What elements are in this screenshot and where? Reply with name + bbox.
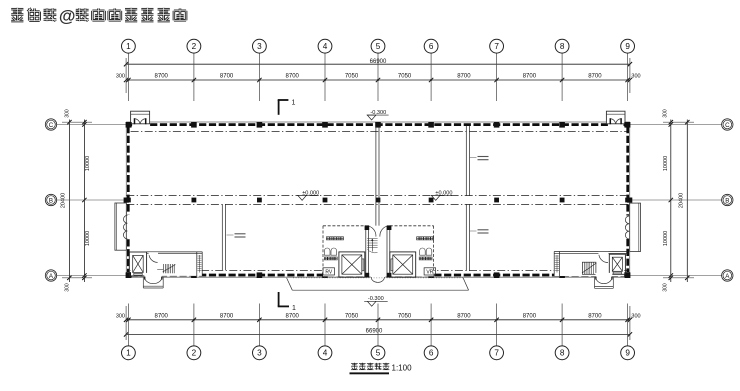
svg-text:7050: 7050 xyxy=(398,73,412,79)
lobby right room dashed outline xyxy=(390,225,434,227)
svg-text:300: 300 xyxy=(116,314,125,320)
svg-text:20400: 20400 xyxy=(61,193,67,208)
svg-text:1: 1 xyxy=(292,305,296,312)
service shaft left suite xyxy=(196,252,198,276)
section mark 1 bottom xyxy=(278,292,280,306)
svg-text:300: 300 xyxy=(631,73,640,79)
partition wall grid5 upper xyxy=(375,126,377,226)
roof shaft top-right with doors xyxy=(608,121,624,126)
columns on B axis xyxy=(126,198,131,203)
svg-text:8: 8 xyxy=(560,42,565,51)
svg-text:300: 300 xyxy=(64,283,70,292)
svg-text:2: 2 xyxy=(192,42,197,51)
svg-text:7050: 7050 xyxy=(398,314,412,320)
svg-text:5: 5 xyxy=(376,349,381,358)
svg-text:8700: 8700 xyxy=(523,73,537,79)
svg-text:4: 4 xyxy=(323,42,328,51)
dim lines left vertical xyxy=(68,120,70,283)
svg-text:RV: RV xyxy=(325,270,333,276)
door arc left suite xyxy=(149,254,158,263)
svg-text:8700: 8700 xyxy=(286,314,300,320)
svg-text:10000: 10000 xyxy=(85,231,91,246)
svg-text:9: 9 xyxy=(625,349,630,358)
elevator center-right xyxy=(390,252,416,277)
door arc right suite xyxy=(599,253,608,262)
svg-text:1: 1 xyxy=(126,349,131,358)
svg-text:10000: 10000 xyxy=(663,231,669,246)
svg-text:@: @ xyxy=(59,7,76,26)
svg-text:8700: 8700 xyxy=(457,314,471,320)
box VR right xyxy=(424,268,436,275)
dash-dot line inside bottom wall xyxy=(131,270,627,272)
text freight elevator area left xyxy=(326,237,329,240)
lobby left room dashed outline xyxy=(323,225,366,227)
svg-text:C: C xyxy=(725,122,730,129)
entrance porch right xyxy=(596,273,613,279)
svg-text:4: 4 xyxy=(323,349,328,358)
svg-text:10000: 10000 xyxy=(85,156,91,171)
svg-text:8700: 8700 xyxy=(220,314,234,320)
service shaft right suite xyxy=(553,252,555,277)
svg-text:20400: 20400 xyxy=(679,193,685,208)
lobby corner columns xyxy=(365,225,370,230)
duct arches left room xyxy=(324,248,330,255)
svg-text:C: C xyxy=(49,122,54,129)
svg-text:VR: VR xyxy=(426,270,433,276)
svg-text:300: 300 xyxy=(64,109,70,118)
wall left exterior xyxy=(125,122,127,277)
tiny text right room xyxy=(419,257,422,260)
svg-text:7050: 7050 xyxy=(345,73,359,79)
grid bubbles top 1-9 xyxy=(121,39,135,53)
dash-dot line inside top wall xyxy=(131,130,627,132)
grid bubbles right C B A xyxy=(722,119,733,130)
svg-text:8: 8 xyxy=(560,349,565,358)
elevator center-left xyxy=(339,252,365,277)
axis extension lines left xyxy=(57,124,126,126)
svg-text:1:100: 1:100 xyxy=(392,363,413,372)
partition wall x468 lower xyxy=(465,204,467,270)
label on x468 wall lower xyxy=(470,230,477,232)
partition wall x223 lower xyxy=(221,204,223,270)
title first floor plan 1:100 xyxy=(351,362,358,364)
elevator far-left xyxy=(129,252,146,276)
stairs right suite xyxy=(582,262,596,274)
right suite top wall xyxy=(554,251,628,253)
svg-text:8700: 8700 xyxy=(523,314,537,320)
svg-text:7050: 7050 xyxy=(345,314,359,320)
entrance porch left xyxy=(144,273,162,279)
right suite white underlay xyxy=(554,252,624,277)
dim line top segments xyxy=(126,79,630,81)
watermark text sohu xyxy=(11,7,186,26)
tiny text left room xyxy=(324,257,327,260)
svg-text:8700: 8700 xyxy=(457,73,471,79)
svg-text:10000: 10000 xyxy=(663,156,669,171)
columns on C axis xyxy=(126,122,132,128)
left suite white underlay xyxy=(131,252,202,276)
svg-text:8700: 8700 xyxy=(588,314,602,320)
svg-text:3: 3 xyxy=(257,42,262,51)
entrance platform center xyxy=(292,289,468,291)
duct arches right room xyxy=(420,248,426,255)
entrance bay right with sliding door xyxy=(622,216,629,239)
svg-text:300: 300 xyxy=(663,283,669,292)
dim line top total 66900 xyxy=(126,63,630,65)
text freight elevator area right xyxy=(417,237,420,240)
grid bubbles left C B A xyxy=(45,119,56,130)
svg-text:300: 300 xyxy=(631,314,640,320)
dim line bottom segments xyxy=(126,319,630,321)
entrance bay left with sliding door xyxy=(127,215,130,239)
wall right exterior xyxy=(629,122,631,277)
lobby corridor walls grid5 xyxy=(365,226,367,277)
grid lines top verticals xyxy=(127,53,129,101)
svg-text:B: B xyxy=(49,197,53,204)
columns on A axis xyxy=(126,272,132,278)
svg-text:8700: 8700 xyxy=(155,73,169,79)
svg-text:B: B xyxy=(725,197,729,204)
left suite top wall xyxy=(147,251,203,253)
wall middle B axis dash-dot xyxy=(126,195,629,197)
svg-text:300: 300 xyxy=(116,73,125,79)
partition wall x468 upper xyxy=(465,126,467,196)
svg-text:9: 9 xyxy=(625,42,630,51)
axis extension lines right xyxy=(630,124,722,126)
elevator far-right xyxy=(609,254,625,274)
svg-text:8700: 8700 xyxy=(286,73,300,79)
svg-text:66900: 66900 xyxy=(366,329,383,335)
svg-text:1: 1 xyxy=(292,100,296,107)
section mark 1 top xyxy=(278,100,280,115)
svg-text:7: 7 xyxy=(494,349,499,358)
wall top exterior C axis xyxy=(126,121,630,123)
roof shaft top-left with doors xyxy=(132,121,148,126)
svg-text:3: 3 xyxy=(257,349,262,358)
lobby top double door xyxy=(369,226,376,236)
grid bubbles bottom 1-9 xyxy=(121,346,135,360)
lobby white underlay xyxy=(323,226,434,276)
svg-text:8700: 8700 xyxy=(220,73,234,79)
svg-text:1: 1 xyxy=(126,42,131,51)
stairs left suite xyxy=(163,264,165,273)
grid lines bottom verticals xyxy=(127,304,129,346)
dim line bottom total 66900 xyxy=(126,333,630,335)
lobby corridor stair xyxy=(367,238,377,240)
box RV left xyxy=(323,268,335,275)
svg-text:5: 5 xyxy=(376,42,381,51)
dim lines right vertical xyxy=(670,120,672,283)
svg-text:6: 6 xyxy=(429,349,434,358)
svg-text:2: 2 xyxy=(192,349,197,358)
svg-text:7: 7 xyxy=(494,42,499,51)
wall bottom exterior A axis xyxy=(126,276,630,278)
svg-text:6: 6 xyxy=(429,42,434,51)
corner columns xyxy=(126,122,131,127)
label on x223 wall xyxy=(227,234,234,236)
label on x468 wall upper xyxy=(470,157,477,159)
svg-text:8700: 8700 xyxy=(155,314,169,320)
lobby bottom double door xyxy=(371,273,386,279)
svg-text:300: 300 xyxy=(663,109,669,118)
svg-text:8700: 8700 xyxy=(588,73,602,79)
